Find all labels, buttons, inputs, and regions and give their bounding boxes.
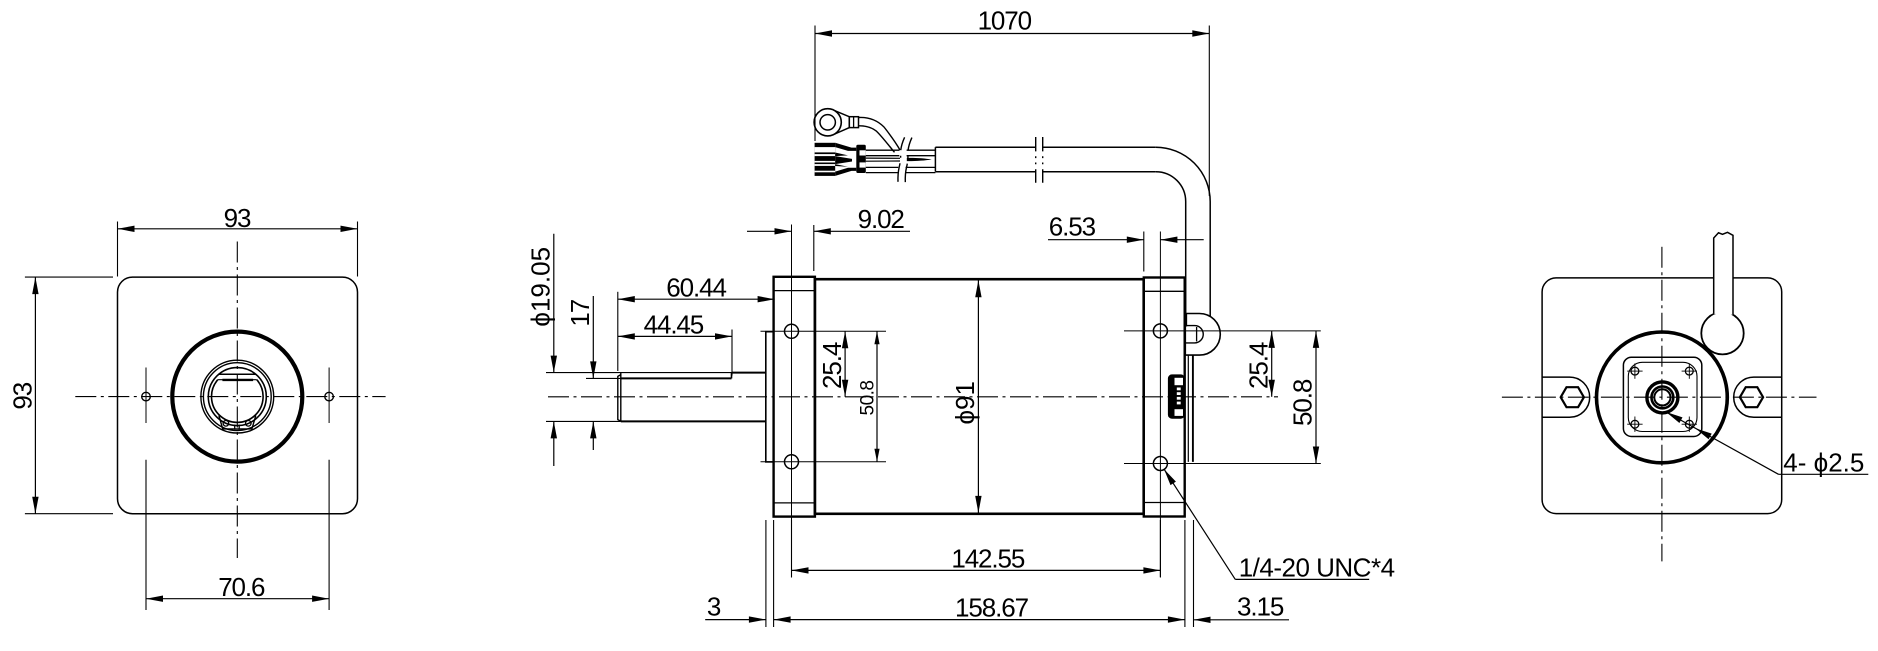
rear view vertical centerline [1661,247,1663,562]
dimension 93 left extension lines [25,276,113,278]
ring terminal [814,109,841,136]
rear view horizontal centerline [1502,396,1817,398]
dimension 93 left [34,277,36,514]
svg-text:ϕ19.05: ϕ19.05 [526,247,556,327]
rear hole axis line [1159,232,1161,578]
rear mounting holes side view [1153,324,1167,338]
dimension 6.53 [1048,239,1144,241]
svg-text:50.8: 50.8 [858,381,879,416]
dimension 93 top extension lines [117,222,119,277]
svg-text:70.6: 70.6 [218,572,265,602]
front view mounting plate square [118,277,358,514]
screw hole top-right [1685,367,1693,375]
cable dimension 1070 extension lines [814,26,816,142]
rear lug inner clamp [1186,326,1203,343]
svg-text:44.45: 44.45 [644,309,704,339]
left hex nut [1561,387,1584,407]
rear cable grommet [1701,312,1743,354]
dimension 6.53 extension lines [1143,232,1145,272]
front mounting hole left [142,392,151,401]
svg-text:17: 17 [565,299,595,326]
front hole centerline ticks [761,330,887,332]
screw hole top-left [1631,367,1639,375]
rear view mounting plate square [1542,278,1782,514]
cable jacket [934,147,936,172]
rear cover plate edge [1192,332,1194,462]
dimension 60.44 [618,298,775,300]
spade connector block [815,143,836,176]
shaft bore outer circle [208,368,266,426]
leader 4-phi2.5 [1666,412,1778,474]
leader 1/4-20 UNC*4 [1164,469,1235,579]
dimension 3.15 [1194,619,1290,621]
dimension 158.67 [774,619,1185,621]
dimension 70.6 [146,598,329,600]
rear flange plate [1144,278,1185,517]
rear left ear pocket [1542,377,1590,417]
svg-text:158.67: 158.67 [955,593,1029,623]
dimension 9.02 extension lines [813,225,815,271]
brush holder square outer [1623,357,1701,436]
svg-text:50.8: 50.8 [1288,379,1318,426]
rear hole centerline ticks [1124,330,1321,332]
dimension 17 [592,296,594,378]
cable jacket break mark [1035,137,1037,183]
dimension 142.55 [792,569,1161,571]
shaft flat band line [219,373,256,375]
rear cable [1714,232,1733,314]
rear right ear pocket [1734,377,1782,417]
screw hole bottom-left [1631,420,1639,428]
screw hole bottom-right [1685,420,1693,428]
svg-text:4- ϕ2.5: 4- ϕ2.5 [1783,447,1864,477]
right hex nut [1740,387,1763,407]
svg-text:1070: 1070 [978,6,1032,36]
wire B middle pinch [866,157,900,159]
rear hub ring outer [1647,382,1678,413]
front view vertical centerline [236,242,238,559]
wire sleeve collars [856,145,866,173]
shaft [732,372,766,374]
spade connector tapers [835,143,856,151]
dimension 3 extension lines [765,520,767,627]
front view horizontal centerline [75,396,385,398]
dimension 17 extension line [586,377,621,379]
ring terminal barrel [849,117,858,128]
svg-text:25.4: 25.4 [1243,342,1273,389]
svg-text:9.02: 9.02 [858,204,905,234]
front hole axis line [791,225,793,578]
dimension phi19.05 [553,234,555,373]
cable bend [1156,147,1210,316]
dimension 3.15 extension lines [1184,520,1186,627]
front bearing ring inner [203,363,271,431]
brush holder square inner [1628,362,1697,431]
dimension 50.8 rear [1315,331,1317,464]
svg-text:142.55: 142.55 [951,543,1025,573]
wire A upper [866,149,900,151]
svg-text:1/4-20 UNC*4: 1/4-20 UNC*4 [1239,553,1395,583]
bore bottom clamp trapezoid [219,416,256,429]
front bearing ring outer [201,360,274,433]
clamp screw left [223,421,229,427]
dimension 25.4 front [844,331,846,397]
dimension 44.45 [618,335,732,337]
dimension 1070 [815,33,1209,35]
front mounting holes side view [785,324,799,338]
svg-text:3.15: 3.15 [1237,592,1284,622]
svg-text:93: 93 [224,203,251,233]
dimension 70.6 extension lines [145,460,147,610]
svg-text:ϕ91: ϕ91 [950,381,980,424]
ring terminal wire [859,117,901,150]
svg-text:3: 3 [707,591,721,621]
dimension 142.55 extension lines [791,520,793,578]
clamp screw right [246,421,252,427]
rear flange chamfer lines [1144,290,1185,292]
dimension 60.44 extension line [617,292,619,371]
front boss edge-on [766,332,774,462]
rear brush connector [1169,375,1184,417]
dimension phi19.05 extension lines [546,372,732,374]
cable edge into lug [1186,314,1188,327]
svg-text:25.4: 25.4 [817,342,847,389]
dimension 9.02 [747,230,792,232]
front boss circle [172,332,302,462]
dimension 44.45 extension line [731,330,733,376]
svg-text:6.53: 6.53 [1049,212,1096,242]
svg-text:93: 93 [8,382,38,409]
dimension 25.4 rear [1271,331,1273,397]
front mounting hole right [325,392,334,401]
rear body circle [1597,332,1728,463]
rear cable lug [1185,314,1220,356]
rear hub ring middle [1652,387,1674,409]
front flange plate [774,277,815,517]
front flange chamfer lines [774,290,815,292]
clamp center notch [234,425,236,430]
dimension phi91 [977,280,979,513]
dimension 93 top [118,228,358,230]
wire C lower [866,166,899,168]
rear hub ring inner [1654,389,1670,405]
shaft bore circle with flat [211,380,263,423]
svg-text:60.44: 60.44 [666,272,726,302]
dimension 3 [705,619,766,621]
dimension 50.8 front small [876,331,878,462]
motor body [815,279,1144,514]
wire break mark [898,137,905,182]
side view horizontal centerline [548,396,1278,398]
